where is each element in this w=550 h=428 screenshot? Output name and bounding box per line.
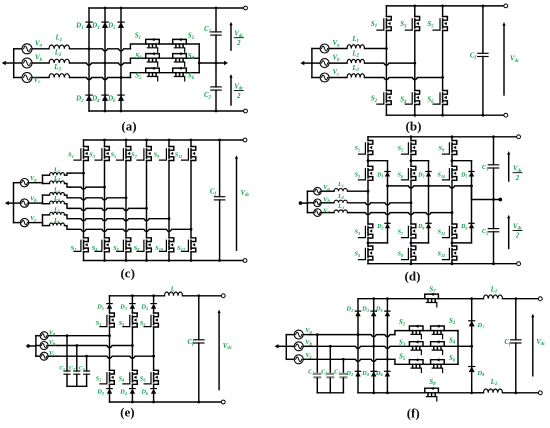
switch S1 MOSFET (b) — [377, 17, 391, 31]
label L1 (c) — [53, 168, 60, 174]
label S4 (c) — [92, 245, 98, 252]
ac source Va (e) — [36, 332, 58, 340]
label S11 (c) — [175, 152, 183, 159]
diode D4 (e) — [130, 389, 135, 394]
label S1 (e) — [96, 320, 102, 327]
svg-text:2: 2 — [515, 233, 520, 240]
capacitor Cf (c) — [214, 140, 224, 261]
wire capacitor star tie (e) — [67, 385, 87, 387]
wire top rail left of L (e) — [110, 294, 165, 297]
switch S2 MOSFET (d) — [359, 166, 373, 180]
label Va (a) — [35, 40, 43, 48]
switch S1 MOSFET (f) — [409, 325, 423, 339]
switch S1 MOSFET (d) — [359, 141, 373, 155]
wire phase b (f) — [310, 345, 395, 349]
inductor L1 (d) — [334, 189, 348, 192]
wire diode leg 3 (a) — [120, 8, 122, 111]
label L1 (a) — [55, 35, 63, 43]
svg-text:C2: C2 — [321, 369, 327, 375]
arrow Vdc (b) — [502, 22, 505, 95]
diode D3 (e) — [130, 304, 135, 309]
wire phase branch 5 to leg 5 (c) — [70, 217, 170, 221]
wire phase b to block (a) — [70, 62, 131, 66]
switch S2 MOSFET (f) — [431, 325, 445, 339]
diode D5 (e) — [151, 304, 156, 309]
label S3 (b) — [400, 21, 407, 29]
ac source Va (a) — [14, 44, 49, 54]
label Vc (a) — [34, 77, 42, 85]
capacitor C1 (e) — [64, 336, 70, 387]
wire leg 2 (e) — [131, 296, 133, 402]
switch S2 MOSFET (a) — [173, 38, 187, 52]
switch S4 MOSFET (b) — [405, 91, 419, 105]
wire phase c to leg C (d) — [348, 211, 454, 215]
wire leg B (d) — [410, 137, 413, 264]
inductor L2 (d) — [334, 200, 348, 203]
label L2 (a) — [54, 50, 62, 58]
wire bridge leg 1 (f) — [357, 299, 359, 393]
wire phase c (e) — [58, 355, 155, 359]
label S5 (b) — [427, 21, 434, 29]
svg-text:(a): (a) — [121, 119, 136, 134]
svg-text:(f): (f) — [407, 406, 420, 421]
label L3 (c) — [53, 188, 60, 194]
label S4 (e) — [119, 375, 125, 382]
label L3 (b) — [351, 65, 359, 73]
label D3 (e) — [119, 304, 127, 311]
switch S3 MOSFET (d) — [359, 224, 373, 238]
svg-text:C3: C3 — [334, 369, 340, 375]
label Vdc/2 lower (d) — [513, 223, 523, 239]
ac source Va (f) — [286, 330, 310, 339]
label L2 (c) — [53, 176, 60, 182]
label S2 (e) — [96, 375, 102, 382]
capacitor C2 (f) — [326, 346, 334, 393]
wire bottom dc rail (a) with output terminal — [89, 109, 247, 113]
label Cf (f) — [504, 339, 511, 347]
svg-text:L4: L4 — [53, 196, 60, 202]
label D4 (a) — [91, 96, 100, 104]
caption (b) — [406, 119, 422, 134]
wire bridge leg 3 (f) — [386, 299, 388, 393]
wire phase split node 2 (c) — [42, 195, 44, 204]
ac source Vb (c) — [14, 199, 43, 207]
inductor L3 (b) — [347, 74, 365, 78]
label S3 (c) — [89, 152, 95, 159]
svg-text:D4: D4 — [417, 224, 424, 230]
inductor L2 (f) — [484, 389, 503, 393]
label D6 (d) — [460, 224, 468, 230]
wire phase c to block (a) — [70, 76, 131, 80]
label Vdc/2 upper (a) — [234, 31, 244, 47]
wire phase branch 3 to leg 3 (c) — [70, 196, 127, 200]
label S1 (f) — [399, 319, 405, 327]
label D2 (e) — [96, 389, 104, 396]
wire left bus (f) — [285, 335, 287, 360]
ac source Va (b) — [312, 44, 347, 53]
wire neutral to capacitor midpoint (d) — [472, 186, 503, 202]
wire left bus (a) — [13, 49, 15, 78]
switch S8 MOSFET (c) — [137, 238, 151, 252]
switch S6 MOSFET (d) — [402, 166, 416, 180]
switch S3 MOSFET (a) — [146, 52, 160, 66]
label C1 (d) — [482, 164, 489, 172]
wire to L2 (f) — [472, 392, 484, 394]
svg-text:D2: D2 — [376, 224, 383, 230]
wire phase a to leg A (d) — [348, 190, 370, 193]
label S3 (e) — [119, 320, 125, 327]
arrow Vdc/2 lower (a) — [229, 74, 232, 105]
label S3 (f) — [399, 340, 406, 348]
arrow Vdc (c) — [235, 155, 238, 250]
inductor L1 (f) — [484, 295, 503, 299]
label C3 (e) — [79, 366, 85, 372]
label S6 (e) — [140, 375, 147, 382]
switch S6 MOSFET (e) — [144, 370, 158, 384]
inductor L4 (c) — [43, 201, 71, 208]
node N / left input terminal of panel (a) — [2, 61, 14, 65]
switch S11 MOSFET (d) — [443, 224, 457, 238]
label Va (f) — [305, 327, 312, 335]
wire leg A (d) — [367, 137, 370, 264]
label S10 (c) — [155, 245, 164, 252]
label S9 (c) — [154, 152, 161, 159]
label Vc (e) — [49, 350, 56, 358]
switch S7 MOSFET (c) — [137, 147, 151, 161]
wire capacitor star tie (f) — [317, 392, 343, 394]
diode D5 (f) — [385, 311, 390, 316]
inductor L1 (c) — [43, 173, 71, 176]
label Va (e) — [49, 329, 56, 337]
switch S6 MOSFET (f) — [431, 358, 445, 372]
switch S12 MOSFET (c) — [182, 238, 196, 252]
label Vdc/2 lower (a) — [234, 83, 244, 99]
ac source Vc (c) — [14, 218, 43, 226]
arrow Vdc (f) — [531, 314, 534, 376]
inductor L3 (d) — [334, 210, 348, 213]
switch S6 MOSFET (a) — [173, 67, 187, 81]
label L4 (c) — [53, 196, 60, 202]
diode D6 (e) — [151, 389, 156, 394]
diode D2 (a) — [86, 95, 92, 101]
label S12 (c) — [177, 245, 185, 252]
node N / left input terminal of panel (f) — [275, 344, 287, 348]
inductor L2 (a) — [49, 59, 70, 63]
label Vc (c) — [30, 215, 37, 223]
wire leg C (d) — [451, 137, 454, 264]
switch S3 MOSFET (c) — [95, 147, 109, 161]
label Vc (f) — [305, 352, 312, 360]
switch S3 MOSFET (f) — [409, 340, 423, 354]
wire neutral midpoint rail (a) — [198, 61, 228, 65]
switch S7 MOSFET (d) — [402, 224, 416, 238]
wire switch row S3/S4 (a) — [130, 58, 199, 63]
wire phase b to leg B (d) — [348, 201, 413, 205]
wire left bus (e) — [35, 336, 37, 357]
ac source Vb (b) — [312, 59, 347, 68]
ac source Vc (b) — [312, 73, 347, 82]
label L3 (d) — [337, 204, 344, 210]
inductor L6 (c) — [43, 223, 71, 229]
wire leg 4 (c) — [146, 140, 148, 261]
label L2 (f) — [490, 379, 498, 387]
svg-text:(c): (c) — [120, 266, 134, 281]
label D5 (f) — [375, 306, 384, 313]
diode D1 (d) — [385, 172, 390, 177]
label Vdc/2 upper (d) — [513, 166, 523, 182]
label S2 (f) — [449, 318, 456, 326]
switch S5 MOSFET (b) — [433, 17, 447, 31]
label Vdc (f) — [536, 339, 546, 347]
label L2 (b) — [351, 50, 359, 58]
diode D5 (a) — [118, 22, 124, 28]
capacitor C1 (a) — [211, 8, 221, 63]
wire switch row S1/S2 (f) — [395, 331, 458, 347]
arrow Vdc (e) — [218, 310, 221, 390]
label Va (c) — [30, 175, 37, 183]
label C2 (a) — [204, 92, 212, 100]
node N / left input terminal of panel (e) — [26, 344, 36, 348]
caption (c) — [120, 266, 134, 281]
wire phase split node 1 (c) — [42, 175, 44, 183]
wire bridge leg 2 (f) — [373, 299, 375, 393]
wire switch row S1/S2 (a) — [130, 44, 199, 63]
label D1 (a) — [75, 23, 83, 31]
wire leg 6 (c) — [190, 140, 192, 261]
wire phase b (e) — [58, 344, 134, 348]
wire bottom rail through S8 (f) — [358, 391, 473, 394]
wire phase branch 2 to leg 2 (c) — [70, 186, 106, 190]
diode D8 (f) — [469, 367, 475, 373]
label S12 (d) — [437, 251, 445, 258]
label D2 (f) — [345, 370, 354, 377]
wire clamp branch leg A (d) — [368, 161, 388, 243]
caption (e) — [120, 404, 134, 419]
label S6 (f) — [449, 355, 456, 363]
svg-text:L: L — [170, 285, 175, 292]
label C2 (e) — [69, 366, 75, 372]
arrow Vdc/2 lower (d) — [507, 215, 510, 249]
label S7 (c) — [131, 152, 138, 159]
switch S2 MOSFET (b) — [377, 91, 391, 105]
label S3 (d) — [354, 229, 360, 236]
wire neutral tie (d) — [386, 185, 473, 189]
label Vc (b) — [333, 69, 341, 77]
capacitor C2 (a) — [211, 63, 221, 111]
svg-text:L5: L5 — [53, 207, 60, 213]
label D2 (a) — [75, 96, 84, 104]
svg-text:D3: D3 — [417, 172, 424, 178]
capacitor Cf (e) — [194, 296, 204, 402]
capacitor C1 (d) — [488, 137, 498, 200]
svg-text:L6: L6 — [53, 218, 60, 224]
label S2 (c) — [71, 245, 77, 252]
label S10 (d) — [437, 172, 446, 179]
ac source Vb (d) — [307, 199, 334, 207]
svg-text:L2: L2 — [53, 176, 60, 182]
label C1 (a) — [204, 26, 211, 34]
wire top dc rail (d) with terminal — [368, 135, 520, 139]
switch S8 MOSFET (f) — [425, 387, 439, 401]
switch S5 MOSFET (d) — [402, 141, 416, 155]
label S4 (b) — [400, 97, 407, 105]
label C2 (d) — [482, 228, 489, 236]
label S1 (b) — [371, 21, 377, 29]
caption (d) — [405, 268, 421, 283]
caption (a) — [121, 119, 136, 134]
inductor L (e) — [165, 292, 183, 296]
svg-text:D1: D1 — [376, 172, 383, 178]
node N / left input terminal of panel (d) — [299, 201, 308, 205]
label Va (d) — [323, 184, 330, 192]
wire phase branch 6 to leg 6 (c) — [70, 228, 192, 232]
wire bottom dc rail (c) with terminal — [84, 259, 247, 263]
label S4 (d) — [354, 251, 360, 258]
ac source Vc (a) — [14, 73, 49, 83]
label S8 (f) — [429, 379, 436, 387]
wire switch row S5/S6 (f) — [395, 346, 458, 364]
switch S6 MOSFET (c) — [117, 238, 131, 252]
wire phase split node 3 (c) — [42, 215, 44, 226]
label S8 (d) — [397, 251, 404, 258]
wire L1 to terminal (f) — [503, 297, 543, 301]
svg-text:L1: L1 — [337, 182, 344, 188]
wire leg 3 (b) — [442, 6, 444, 115]
ac source Vb (e) — [36, 342, 58, 350]
label S1 (c) — [68, 152, 74, 159]
capacitor Cf (f) — [511, 299, 521, 393]
label S2 (a) — [188, 33, 195, 41]
wire phase b to leg2 (b) — [365, 62, 417, 66]
label S5 (f) — [399, 354, 406, 362]
label D4 (e) — [119, 389, 127, 396]
switch S9 MOSFET (c) — [160, 147, 174, 161]
label L3 (a) — [53, 64, 61, 72]
wire to L1 (f) — [472, 298, 484, 300]
wire leg 2 (c) — [104, 140, 106, 261]
diode D6 (a) — [118, 95, 124, 101]
ac source Vc (e) — [36, 352, 58, 360]
label C2 (f) — [321, 369, 327, 375]
wire leg 1 (b) — [385, 6, 387, 115]
wire bottom dc rail (b) with terminal — [386, 113, 507, 117]
ac source Vc (d) — [307, 209, 334, 217]
label L6 (c) — [53, 218, 60, 224]
inductor L2 (c) — [43, 181, 71, 187]
label L2 (d) — [337, 194, 344, 200]
diode D5 (d) — [469, 172, 474, 177]
diode D6 (f) — [385, 371, 390, 376]
label C1 (e) — [59, 366, 65, 372]
inductor L3 (a) — [49, 74, 70, 78]
label D3 (d) — [417, 172, 424, 178]
wire switch row S3/S4 (f) — [395, 345, 458, 347]
diode D3 (d) — [426, 172, 431, 177]
label Cf (b) — [470, 52, 477, 60]
label L5 (c) — [53, 207, 60, 213]
wire phase a (f) — [310, 333, 395, 337]
label Va (b) — [333, 40, 341, 48]
label Vdc (b) — [510, 56, 520, 64]
switch S10 MOSFET (d) — [443, 166, 457, 180]
label Vb (f) — [305, 339, 312, 347]
svg-text:(e): (e) — [120, 404, 134, 419]
wire switch row S5/S6 (a) — [130, 63, 199, 78]
label D3 (a) — [91, 23, 100, 31]
label D7 (f) — [477, 322, 486, 329]
switch S6 MOSFET (b) — [433, 91, 447, 105]
label Vdc (c) — [241, 190, 251, 198]
inductor L5 (c) — [43, 212, 71, 218]
wire top rail through S7 (f) — [358, 297, 473, 300]
label S4 (a) — [188, 53, 195, 61]
svg-text:L1: L1 — [53, 168, 60, 174]
svg-text:D5: D5 — [460, 172, 467, 178]
wire phase c to leg3 (b) — [365, 76, 445, 80]
wire phase a to leg1 (b) — [365, 47, 388, 50]
capacitor C3 (e) — [84, 356, 90, 386]
switch S4 MOSFET (a) — [173, 52, 187, 66]
switch S11 MOSFET (c) — [182, 147, 196, 161]
label S5 (a) — [135, 73, 142, 81]
switch S5 MOSFET (c) — [117, 147, 131, 161]
diode D1 (f) — [355, 311, 360, 316]
label D5 (a) — [107, 23, 116, 31]
label S8 (c) — [134, 245, 141, 252]
wire top rail right of L (e) with terminal — [183, 294, 226, 298]
wire leg 1 (e) — [109, 296, 111, 402]
wire left bus (d) — [306, 191, 308, 212]
wire phase a to block (a) — [70, 47, 131, 51]
switch S1 MOSFET (e) — [100, 313, 114, 327]
diode D4 (a) — [102, 95, 108, 101]
wire freewheel column (f) — [471, 299, 473, 393]
switch S7 MOSFET (f) — [425, 293, 439, 307]
switch S3 MOSFET (b) — [405, 17, 419, 31]
label D8 (f) — [477, 370, 486, 377]
diode D2 (d) — [385, 223, 390, 228]
diode D2 (f) — [355, 371, 360, 376]
arrow Vdc/2 upper (a) — [229, 22, 232, 50]
svg-text:C1: C1 — [308, 369, 314, 375]
label S6 (d) — [397, 172, 404, 179]
label S6 (c) — [113, 245, 120, 252]
wire phase a (e) — [58, 334, 111, 337]
wire L2 to terminal (f) — [503, 391, 543, 395]
label Vdc (e) — [223, 343, 233, 351]
label S6 (a) — [188, 73, 195, 81]
label D5 (d) — [460, 172, 467, 178]
diode D2 (e) — [107, 389, 112, 394]
wire phase branch 1 to leg 1 (c) — [70, 172, 85, 175]
wire clamp branch leg B (d) — [411, 161, 429, 243]
label S5 (d) — [397, 145, 403, 152]
caption (f) — [407, 406, 420, 421]
label L1 (b) — [351, 36, 359, 44]
diode D1 (e) — [107, 304, 112, 309]
node N / left input terminal of panel (b) — [300, 61, 312, 65]
switch S12 MOSFET (d) — [443, 246, 457, 260]
wire top dc rail (c) with terminal — [84, 138, 247, 142]
label D4 (f) — [361, 370, 370, 377]
inductor L1 (a) — [49, 45, 70, 49]
label S2 (b) — [371, 96, 378, 104]
capacitor C3 (f) — [339, 359, 347, 393]
ac source Va (d) — [307, 187, 334, 195]
label S7 (d) — [397, 229, 404, 236]
label S5 (c) — [111, 152, 117, 159]
inductor L2 (b) — [347, 59, 365, 63]
